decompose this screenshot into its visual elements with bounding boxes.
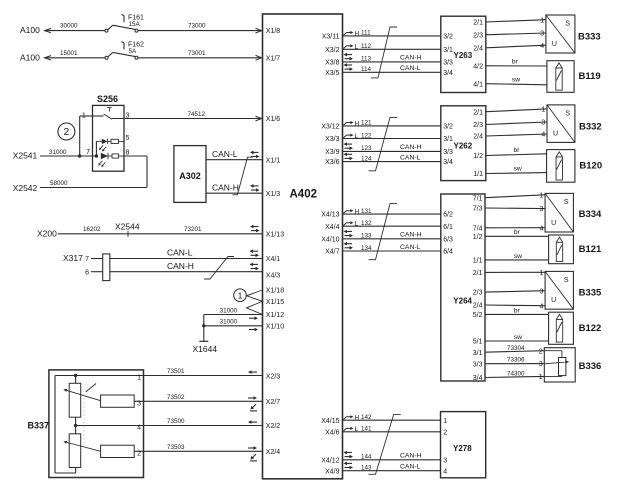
svg-text:X4/15: X4/15 <box>321 418 339 425</box>
svg-text:S: S <box>564 199 569 206</box>
svg-text:1: 1 <box>541 107 545 114</box>
svg-text:2/1: 2/1 <box>473 270 483 277</box>
svg-text:2: 2 <box>64 127 70 138</box>
svg-text:123: 123 <box>361 145 372 152</box>
svg-text:1: 1 <box>539 192 543 199</box>
svg-text:134: 134 <box>361 245 372 252</box>
svg-text:A302: A302 <box>179 171 201 181</box>
svg-text:6/3: 6/3 <box>443 236 453 243</box>
svg-text:A100: A100 <box>20 25 40 35</box>
svg-text:111: 111 <box>361 30 371 37</box>
svg-text:U: U <box>551 220 556 227</box>
svg-text:X3/11: X3/11 <box>322 34 340 41</box>
svg-text:141: 141 <box>361 426 372 433</box>
svg-text:3: 3 <box>126 112 130 119</box>
svg-text:15A: 15A <box>129 21 141 28</box>
svg-text:121: 121 <box>361 120 372 127</box>
svg-text:142: 142 <box>361 414 372 421</box>
svg-text:U: U <box>553 130 558 137</box>
svg-text:132: 132 <box>361 220 372 227</box>
svg-text:br: br <box>514 229 521 236</box>
svg-text:3: 3 <box>539 361 543 368</box>
svg-text:A402: A402 <box>290 189 318 201</box>
svg-text:L: L <box>355 133 359 140</box>
svg-text:X3/8: X3/8 <box>325 60 340 67</box>
svg-text:1: 1 <box>238 290 243 300</box>
svg-text:1/2: 1/2 <box>473 234 483 241</box>
svg-text:112: 112 <box>361 43 372 50</box>
svg-text:73304: 73304 <box>507 345 525 352</box>
svg-text:sw: sw <box>514 165 522 172</box>
svg-text:Y263: Y263 <box>454 51 473 60</box>
svg-text:6: 6 <box>85 269 89 276</box>
svg-text:X1/7: X1/7 <box>266 55 281 62</box>
svg-text:X3/12: X3/12 <box>321 124 339 131</box>
svg-text:1: 1 <box>539 270 543 277</box>
svg-text:X1/10: X1/10 <box>266 323 284 330</box>
svg-text:X1/18: X1/18 <box>266 288 284 295</box>
svg-text:3/1: 3/1 <box>443 47 453 54</box>
svg-text:CAN-H: CAN-H <box>400 453 422 460</box>
svg-text:X2/2: X2/2 <box>266 423 281 430</box>
svg-text:3/3: 3/3 <box>473 361 483 368</box>
svg-text:73500: 73500 <box>167 418 185 425</box>
svg-text:1/2: 1/2 <box>473 153 483 160</box>
svg-text:X4/13: X4/13 <box>321 212 339 219</box>
svg-text:143: 143 <box>361 465 372 472</box>
svg-text:2/4: 2/4 <box>473 303 483 310</box>
svg-text:br: br <box>514 147 521 154</box>
svg-text:X1/1: X1/1 <box>266 157 281 164</box>
svg-text:73201: 73201 <box>184 226 202 233</box>
svg-text:X4/6: X4/6 <box>325 429 340 436</box>
svg-text:2: 2 <box>443 429 447 436</box>
svg-text:CAN-H: CAN-H <box>167 261 194 271</box>
svg-text:A100: A100 <box>20 52 40 62</box>
svg-text:X4/9: X4/9 <box>325 468 340 475</box>
svg-text:X1/15: X1/15 <box>266 299 284 306</box>
svg-text:2: 2 <box>539 348 543 355</box>
svg-text:3/4: 3/4 <box>473 375 483 382</box>
svg-text:U: U <box>551 297 556 304</box>
svg-text:H: H <box>355 30 360 37</box>
svg-text:Y262: Y262 <box>454 142 473 151</box>
svg-text:CAN-L: CAN-L <box>212 149 238 159</box>
svg-text:X1/12: X1/12 <box>266 312 284 319</box>
svg-text:B332: B332 <box>579 121 602 132</box>
svg-text:16202: 16202 <box>83 226 101 233</box>
svg-text:73502: 73502 <box>167 394 185 401</box>
svg-text:3/1: 3/1 <box>473 350 483 357</box>
svg-text:30000: 30000 <box>60 23 78 30</box>
svg-text:S: S <box>564 277 569 284</box>
svg-text:sw: sw <box>512 76 520 83</box>
svg-text:X200: X200 <box>37 228 57 238</box>
svg-text:B122: B122 <box>579 323 602 334</box>
svg-text:X3/3: X3/3 <box>325 136 340 143</box>
svg-text:6/1: 6/1 <box>443 224 453 231</box>
svg-text:113: 113 <box>361 56 372 63</box>
svg-text:2/4: 2/4 <box>473 45 483 52</box>
svg-text:131: 131 <box>361 208 372 215</box>
svg-text:7/4: 7/4 <box>473 225 483 232</box>
svg-text:7: 7 <box>85 256 89 263</box>
svg-text:X4/10: X4/10 <box>321 236 339 243</box>
svg-text:L: L <box>355 426 359 433</box>
svg-text:H: H <box>355 209 360 216</box>
svg-text:5/1: 5/1 <box>473 339 483 346</box>
svg-text:X2542: X2542 <box>13 183 38 193</box>
svg-text:L: L <box>355 44 359 51</box>
svg-text:73501: 73501 <box>167 368 185 375</box>
svg-text:X1/3: X1/3 <box>266 191 281 198</box>
svg-text:B336: B336 <box>579 361 602 372</box>
svg-text:H: H <box>355 120 360 127</box>
svg-text:X3/9: X3/9 <box>325 149 340 156</box>
svg-text:L: L <box>355 221 359 228</box>
svg-text:B335: B335 <box>579 287 602 298</box>
svg-text:2: 2 <box>137 450 141 457</box>
svg-text:X2/3: X2/3 <box>266 374 281 381</box>
svg-text:X1/8: X1/8 <box>266 28 281 35</box>
svg-text:X4/7: X4/7 <box>325 249 340 256</box>
svg-text:2/3: 2/3 <box>473 290 483 297</box>
svg-text:15001: 15001 <box>60 50 78 57</box>
svg-text:3/1: 3/1 <box>443 136 453 143</box>
svg-text:S: S <box>565 21 570 28</box>
svg-text:X3/2: X3/2 <box>325 47 340 54</box>
svg-text:4: 4 <box>443 468 447 475</box>
svg-text:CAN-H: CAN-H <box>400 232 422 239</box>
svg-text:31000: 31000 <box>49 149 67 156</box>
svg-text:X3/5: X3/5 <box>325 70 340 77</box>
svg-text:H: H <box>355 415 360 422</box>
svg-text:4: 4 <box>541 132 545 139</box>
svg-text:S256: S256 <box>97 94 118 104</box>
svg-text:4: 4 <box>539 303 543 310</box>
svg-text:5/2: 5/2 <box>473 312 483 319</box>
svg-text:X2/7: X2/7 <box>266 399 281 406</box>
svg-text:CAN-L: CAN-L <box>400 244 421 251</box>
svg-text:CAN-L: CAN-L <box>167 248 193 258</box>
svg-text:X317: X317 <box>63 253 83 263</box>
svg-text:2/1: 2/1 <box>473 109 483 116</box>
svg-text:31000: 31000 <box>220 319 238 326</box>
svg-text:4: 4 <box>540 43 544 50</box>
svg-text:5: 5 <box>126 135 130 142</box>
svg-text:4: 4 <box>137 425 141 432</box>
svg-text:3: 3 <box>137 400 141 407</box>
svg-text:124: 124 <box>361 155 372 162</box>
svg-text:3/4: 3/4 <box>443 70 453 77</box>
svg-text:X4/1: X4/1 <box>266 256 281 263</box>
svg-text:3/3: 3/3 <box>443 149 453 156</box>
svg-text:CAN-H: CAN-H <box>400 144 422 151</box>
svg-text:sw: sw <box>514 253 522 260</box>
svg-text:7/3: 7/3 <box>473 206 483 213</box>
svg-text:122: 122 <box>361 132 372 139</box>
svg-text:1: 1 <box>443 418 447 425</box>
svg-text:1/1: 1/1 <box>473 258 483 265</box>
svg-text:B334: B334 <box>579 209 602 220</box>
svg-text:7: 7 <box>86 149 90 156</box>
svg-text:S: S <box>565 110 570 117</box>
svg-text:5A: 5A <box>129 48 138 55</box>
svg-text:3/2: 3/2 <box>443 34 453 41</box>
svg-text:73001: 73001 <box>188 50 206 57</box>
svg-text:3: 3 <box>540 31 544 38</box>
svg-text:B119: B119 <box>579 71 601 82</box>
svg-text:X3/6: X3/6 <box>325 159 340 166</box>
svg-text:3: 3 <box>539 288 543 295</box>
svg-text:CAN-L: CAN-L <box>400 65 421 72</box>
svg-text:CAN-L: CAN-L <box>400 464 421 471</box>
svg-text:133: 133 <box>361 233 372 240</box>
svg-text:73306: 73306 <box>507 357 525 364</box>
svg-text:74512: 74512 <box>188 111 206 118</box>
svg-text:58000: 58000 <box>50 180 68 187</box>
svg-text:114: 114 <box>361 66 372 73</box>
svg-text:CAN-L: CAN-L <box>400 154 421 161</box>
svg-text:X2/4: X2/4 <box>266 449 281 456</box>
svg-text:1: 1 <box>137 375 141 382</box>
svg-text:74300: 74300 <box>507 370 525 377</box>
svg-text:br: br <box>512 58 519 65</box>
svg-text:4/2: 4/2 <box>473 63 483 70</box>
svg-text:3: 3 <box>539 206 543 213</box>
svg-text:1: 1 <box>540 17 544 24</box>
svg-text:X4/3: X4/3 <box>266 273 281 280</box>
svg-text:31000: 31000 <box>220 307 238 314</box>
svg-text:6/4: 6/4 <box>443 249 453 256</box>
svg-text:X1/13: X1/13 <box>266 231 284 238</box>
svg-text:1: 1 <box>539 374 543 381</box>
svg-text:sw: sw <box>514 334 522 341</box>
svg-text:X1644: X1644 <box>193 344 218 354</box>
svg-text:Y278: Y278 <box>453 444 472 453</box>
svg-text:Y264: Y264 <box>453 297 472 306</box>
svg-text:6/2: 6/2 <box>443 212 453 219</box>
svg-text:CAN-H: CAN-H <box>212 182 239 192</box>
svg-text:144: 144 <box>361 454 372 461</box>
svg-text:1/1: 1/1 <box>473 171 483 178</box>
svg-text:2/4: 2/4 <box>473 134 483 141</box>
svg-text:4/1: 4/1 <box>473 81 483 88</box>
svg-text:X2541: X2541 <box>13 151 38 161</box>
svg-text:B333: B333 <box>578 31 601 42</box>
svg-text:73503: 73503 <box>167 444 185 451</box>
svg-text:X4/4: X4/4 <box>325 224 340 231</box>
svg-text:B120: B120 <box>579 160 602 171</box>
svg-text:2/3: 2/3 <box>473 122 483 129</box>
svg-text:3: 3 <box>541 120 545 127</box>
svg-text:4: 4 <box>539 225 543 232</box>
svg-text:U: U <box>552 41 557 48</box>
svg-text:7/1: 7/1 <box>473 195 483 202</box>
svg-text:B337: B337 <box>28 421 50 431</box>
svg-text:X4/12: X4/12 <box>321 457 339 464</box>
svg-text:CAN-H: CAN-H <box>400 55 422 62</box>
svg-text:X1/6: X1/6 <box>266 116 281 123</box>
svg-text:3/4: 3/4 <box>443 159 453 166</box>
svg-text:3/2: 3/2 <box>443 124 453 131</box>
svg-text:3/3: 3/3 <box>443 60 453 67</box>
svg-text:3: 3 <box>443 457 447 464</box>
svg-text:2/3: 2/3 <box>473 32 483 39</box>
svg-text:B121: B121 <box>579 244 602 255</box>
svg-text:73000: 73000 <box>188 23 206 30</box>
svg-text:br: br <box>514 307 521 314</box>
svg-text:2/1: 2/1 <box>473 20 483 27</box>
svg-text:X2544: X2544 <box>115 222 140 232</box>
svg-text:1: 1 <box>82 112 86 119</box>
